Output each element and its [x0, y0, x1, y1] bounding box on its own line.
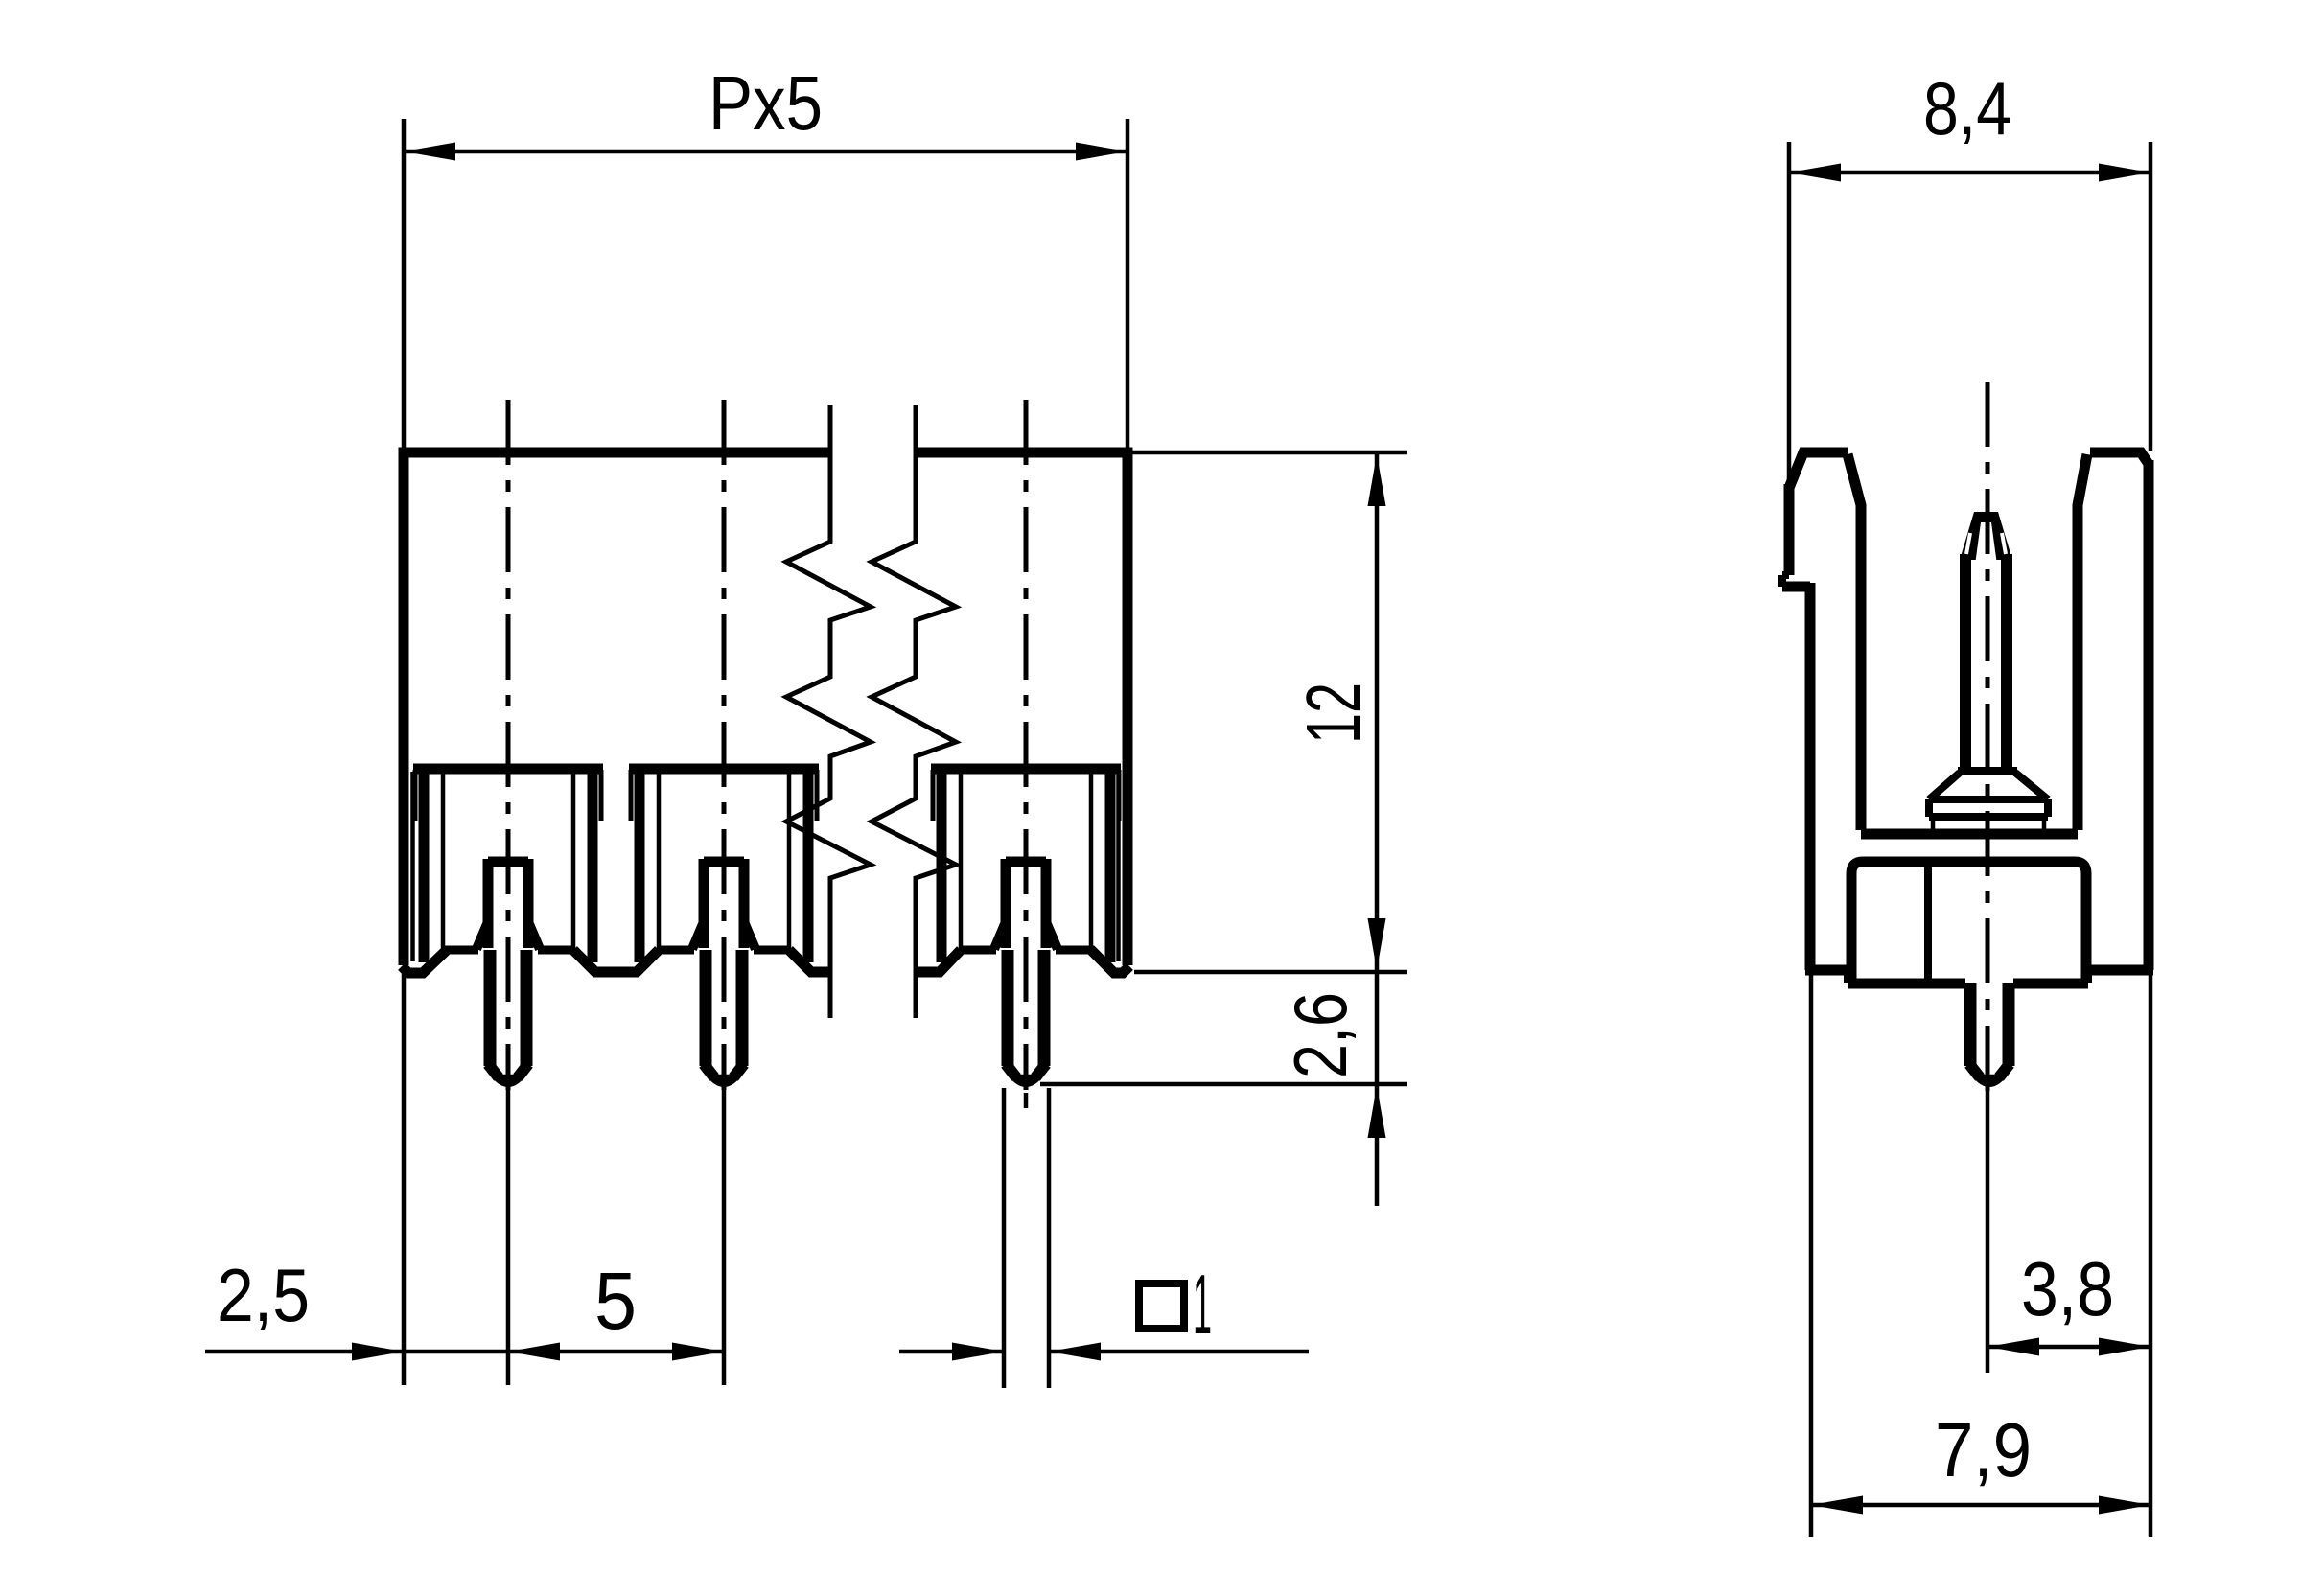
contact chamber 3 floor line	[959, 946, 996, 955]
right view: pin collar base	[1929, 796, 2048, 803]
right view: right prong outline	[2090, 452, 2149, 464]
right view: pin collar flare	[1958, 767, 2017, 775]
break line 2 (zigzag)	[872, 405, 956, 1018]
dimension 2,5 and 5: dimension line	[205, 1350, 726, 1354]
contact chamber 2 inner wall lines	[657, 773, 662, 948]
dimension 8,4: dimension line with arrowheads	[1789, 171, 2150, 175]
dimension 3,8: dimension line with arrowheads	[1987, 1345, 2150, 1350]
contact chamber 2 outer side walls	[635, 769, 645, 962]
contact chamber 3 mouth chamfer stubs	[931, 770, 936, 821]
contact chamber 3 rim top edge	[931, 764, 1121, 775]
contact chamber 3 inner wall lines	[959, 773, 964, 948]
pin 2 conical flare at chamber floor	[692, 924, 703, 949]
contact chamber 1 rim top edge	[413, 764, 603, 775]
svg-text:2,5: 2,5	[217, 1253, 310, 1337]
dimension 2,6: lower arrowhead	[1368, 1086, 1386, 1138]
left view: bottom profile from pin 2 to break	[789, 950, 830, 972]
extension line at body mounting face	[1134, 970, 1407, 975]
left view: 12-dim top extension line	[1133, 451, 1408, 455]
right view: slot floor	[1861, 829, 2078, 840]
left view: bottom profile, left end with 45-deg chamfers	[402, 949, 448, 973]
pin 1 solder leg below body	[484, 950, 497, 1066]
dimension square-1: dimension lines with outside arrows	[899, 1350, 1004, 1354]
contact chamber 1 floor line	[441, 946, 478, 955]
left view: body top line (thick, interrupted by break)	[399, 448, 831, 458]
svg-text:7,9: 7,9	[1935, 1407, 2032, 1492]
break line 1 (zigzag)	[786, 405, 871, 1018]
extension line at pin tip level	[1040, 1082, 1407, 1087]
pin 3 leg tip chamfers and rounded end	[1006, 1064, 1016, 1077]
right view: pin tip (solid with inner reliefs)	[1960, 512, 2012, 560]
svg-text:8,4: 8,4	[1923, 66, 2011, 150]
dimension 3,8: extension line at pin axis	[1986, 1081, 1990, 1373]
pin 3 conical flare at chamber floor	[994, 924, 1005, 949]
pin 3 solder leg below body	[1002, 950, 1014, 1066]
right view: prong bottom edges	[1805, 965, 1848, 976]
right view: leg tip chamfers and rounded end	[1969, 1064, 1980, 1077]
pin 1 conical flare at chamber floor	[476, 924, 487, 949]
svg-text:3,8: 3,8	[2021, 1246, 2114, 1331]
right view: solder leg below block	[1964, 983, 1977, 1066]
right view: contact block seam line	[1924, 862, 1932, 982]
dimension square-1: pin width extension lines	[1002, 1088, 1007, 1388]
pin 1 dash-dot centerline	[506, 400, 511, 1090]
dimension 12 / 2,6: vertical dimension line	[1375, 452, 1380, 1206]
svg-text:5: 5	[594, 1256, 637, 1346]
dimension 12: arrowheads	[1368, 454, 1386, 506]
dimension 7,9: dimension line with arrowheads	[1811, 1503, 2150, 1508]
left view: body left wall	[399, 452, 409, 965]
svg-text:1: 1	[1193, 1257, 1212, 1352]
contact chamber 2 mouth chamfer stubs	[629, 770, 634, 821]
pin 2 leg tip chamfers and rounded end	[704, 1064, 714, 1077]
pin 3 dash-dot centerline	[1024, 400, 1029, 1090]
pin 3 centerline stub below tip	[1024, 1093, 1029, 1108]
dimension 8,4: extension lines	[1787, 142, 1792, 484]
right view: right prong inner edge	[2078, 454, 2087, 830]
dimension 3,8 / 7,9: right wall extension line	[2149, 974, 2153, 1537]
pin 2 dash-dot centerline	[722, 400, 727, 1090]
left view: body inner surface line right	[1116, 772, 1121, 961]
dimension Px5: dimension line with arrowheads	[404, 150, 1127, 154]
contact chamber 2 rim top edge	[629, 764, 819, 775]
contact chamber 3 outer side walls	[937, 769, 947, 962]
right view: left prong inner edge	[1848, 454, 1861, 830]
dimension square-1: square symbol	[1139, 1284, 1184, 1329]
contact chamber 2 floor line	[657, 946, 694, 955]
right view: contact block rounded outline	[1851, 862, 2086, 982]
svg-text:12: 12	[1290, 682, 1376, 744]
right view: left prong outline	[1789, 452, 1848, 488]
contact chamber 1 outer side walls	[419, 769, 430, 962]
svg-text:Px5: Px5	[709, 60, 823, 146]
pin 2 solder leg below body	[700, 950, 712, 1066]
right view: pin dash-dot centerline	[1986, 382, 1990, 1102]
dimension 2,5 / 5: pin extension lines	[506, 1081, 511, 1385]
left view: bottom profile between pin 1 and pin 2	[573, 950, 659, 972]
right view: step edges to lower block bottom	[1844, 970, 1851, 983]
pin 3 contact top section in chamber	[1006, 857, 1046, 867]
left view: body right wall	[1123, 452, 1133, 965]
svg-text:2,6: 2,6	[1278, 992, 1362, 1078]
dimension 7,9: left extension line	[1809, 974, 1814, 1537]
left view: bottom profile, right end with chamfers	[1090, 949, 1129, 973]
contact chamber 1 inner wall lines	[441, 773, 446, 948]
dimension 2,5 / 5: body wall extension	[402, 972, 407, 1385]
contact chamber 1 mouth chamfer stubs	[413, 770, 418, 821]
left view: bottom profile from break to pin 3	[916, 950, 961, 972]
right view: center pin shaft	[1960, 554, 1971, 771]
right view: lower block bottom edge	[1848, 979, 1965, 989]
pin 1 contact top section in chamber	[488, 857, 528, 867]
pin 1 leg tip chamfers and rounded end	[488, 1064, 499, 1077]
dimension Px5: extension lines	[402, 119, 407, 451]
pin 2 contact top section in chamber	[704, 857, 744, 867]
left view: body inner surface line left	[410, 772, 415, 961]
